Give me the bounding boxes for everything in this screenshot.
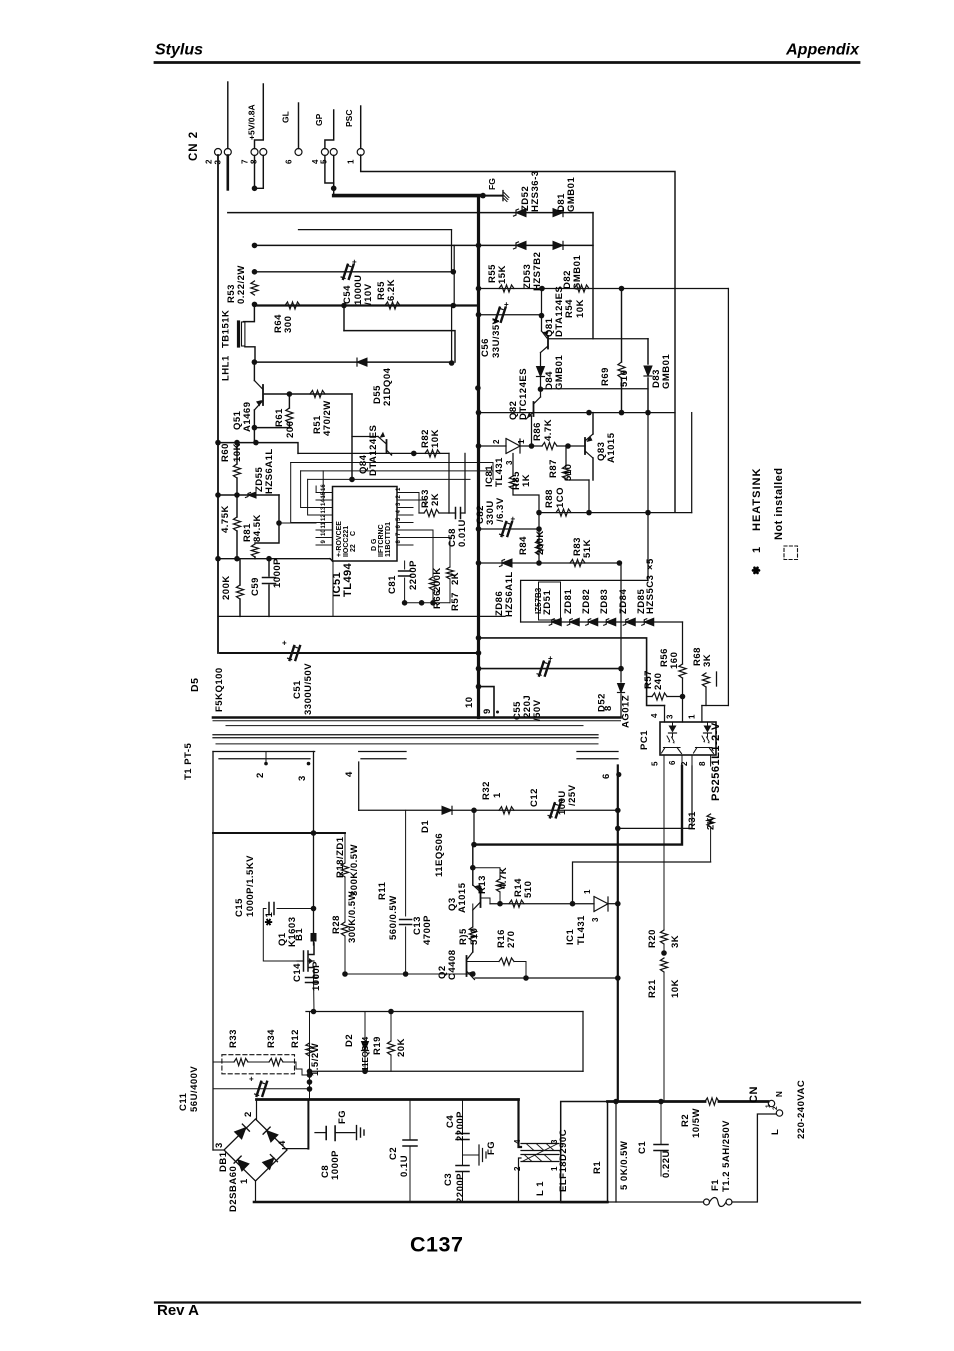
svg-text:5: 5 [651,761,660,766]
svg-text:2200P: 2200P [455,1173,466,1203]
wire zener chain frame [521,580,648,622]
svg-text:/10V: /10V [363,283,374,305]
wire FG stub [483,195,502,197]
svg-text:PS2561L1-2-V: PS2561L1-2-V [710,722,722,801]
svg-text:CN: CN [748,1086,760,1103]
wire h y974 [345,973,473,975]
wire bridge pin4 up [307,1100,309,1149]
svg-text:1: 1 [517,439,526,444]
zener ZD81 [567,618,579,626]
capacitor C15 [277,908,314,910]
svg-text:2200P: 2200P [455,1111,466,1141]
wire nest left of IC51 [255,442,257,444]
PC1 LED 1 [669,726,677,733]
wire C56 node up [541,289,543,315]
wire h9 [344,331,455,362]
svg-text:R87: R87 [548,459,559,478]
svg-text:✱1: ✱1 [264,912,275,926]
wire bridge bottom to bus [255,1181,257,1202]
svg-text:4.7K: 4.7K [498,867,509,889]
svg-text:510: 510 [523,881,534,898]
IC51 pin stubs right [397,492,413,494]
zener ZD83 [604,618,616,626]
svg-text:8: 8 [603,705,614,711]
svg-text:510: 510 [469,928,480,945]
svg-text:3: 3 [591,917,600,922]
resistor R65 [385,302,400,309]
PC1 pin 1 stub [701,706,703,723]
svg-text:R13: R13 [477,875,488,894]
svg-text:56U/400V: 56U/400V [189,1066,200,1112]
svg-text:R28: R28 [331,915,342,934]
svg-text:×5: ×5 [645,558,656,570]
transistor Q84 DTA124ES [386,440,388,453]
capacitor C13 [400,920,412,925]
capacitor C4 [462,1100,464,1134]
svg-text:D G: D G [371,538,378,551]
svg-text:HEATSINK: HEATSINK [751,468,763,531]
diode D2 [364,1012,366,1042]
svg-text:ELF18D290C: ELF18D290C [558,1129,569,1192]
wire h12 [254,427,291,429]
fuse F1 [704,1199,710,1205]
resistor R55 [499,285,514,292]
svg-text:3K: 3K [670,935,681,948]
svg-text:6: 6 [601,773,612,779]
svg-text:2K: 2K [450,572,461,585]
svg-text:ZD82: ZD82 [581,589,592,614]
wire IC81 ref pin3 [512,454,514,477]
svg-text:D1: D1 [420,820,431,833]
resistor R60 [236,443,238,464]
wire h27 [479,638,665,706]
wire h40 Q3 base row [490,903,594,905]
wire h R55 row [479,288,729,290]
svg-text:R57: R57 [450,592,461,611]
svg-text:6.2K: 6.2K [386,279,397,301]
svg-text:200K: 200K [221,575,232,600]
svg-text:T1 PT-5: T1 PT-5 [183,742,194,780]
connector CN2 pin 3 [224,149,231,156]
svg-text:1: 1 [583,889,592,894]
wire h17 ZD55 row [218,494,279,496]
svg-text:R1: R1 [592,1161,603,1174]
wire bottom bus thin [608,1201,704,1203]
resistor R63 [448,453,450,513]
svg-text:4: 4 [513,1139,522,1144]
svg-text:2: 2 [513,1166,522,1171]
resistor R87 [565,446,567,466]
capacitor C14 [306,978,318,983]
svg-text:R21: R21 [647,979,658,998]
resistor R64 [285,302,300,309]
svg-text:300K/0.5W: 300K/0.5W [347,891,358,943]
svg-text:HZS5C3: HZS5C3 [645,575,656,614]
svg-text:IC1: IC1 [565,929,576,946]
svg-text:3: 3 [666,714,675,719]
junction FG bus [480,193,486,199]
diode D52 [618,684,625,693]
wire R18 column [344,833,346,863]
svg-text:510: 510 [563,464,574,481]
resistor R81 [255,495,279,543]
wire D84 node row [541,388,649,390]
svg-text:10/5W: 10/5W [691,1108,702,1138]
resistor R69 [621,289,623,363]
resistor R66 [432,530,434,577]
wire h6 row with C54 [255,271,454,273]
svg-text:ZD84: ZD84 [618,589,629,614]
L1 box [561,1102,608,1203]
svg-text:TB151K: TB151K [221,310,232,348]
capacitor C82 [500,515,516,537]
connector CN2 pin 1 [357,149,364,156]
wire h28 C51 row [220,652,479,654]
wire thick top bus [257,1098,519,1101]
svg-text:Appendix: Appendix [785,42,860,59]
zener ZD82 [586,618,598,626]
svg-text:R86: R86 [532,422,543,441]
resistor R33/R34 dashed box [222,1055,295,1074]
svg-text:FG: FG [486,1141,497,1155]
wire T1 pin6 drop / main vertical [617,766,619,1102]
svg-text:C81: C81 [387,575,398,594]
wire h23 ZD86 row [479,562,620,564]
zener ZD86 [500,559,513,567]
capacitor C81 [404,561,406,569]
svg-text:R11: R11 [377,881,388,900]
capacitor C55 [537,654,553,676]
wire h13 [218,443,298,454]
wire h20 R88 row [539,512,692,514]
zener ZD52 [514,209,527,217]
capacitor C51 [282,639,300,661]
transformer pin 2 [264,762,268,766]
svg-text:GMB01: GMB01 [566,177,577,212]
svg-text:2: 2 [255,772,266,778]
svg-text:L 1: L 1 [535,1181,546,1196]
svg-text:C14: C14 [292,963,303,982]
svg-text:1: 1 [688,714,697,719]
transistor Q81 DTA124ES [541,316,543,331]
svg-text:0.22/2W: 0.22/2W [236,265,247,304]
capacitor C59 [268,559,270,576]
IC U51 TL494 box [333,487,398,562]
svg-text:HZS36-3: HZS36-3 [530,170,541,212]
svg-text:C3: C3 [443,1173,454,1186]
wire h10 row D55 [254,361,451,363]
wire FG bus thick [334,194,483,198]
resistor R57 2K [449,538,451,568]
wire pin7/8 join [255,156,264,189]
PC1 phototransistor 1 [662,748,682,754]
svg-text:D2SBA60: D2SBA60 [228,1166,239,1212]
svg-text:1000P: 1000P [330,1150,341,1180]
svg-text:+-ROVCEE: +-ROVCEE [336,521,343,557]
svg-text:2: 2 [205,159,214,164]
capacitor C56 [493,300,509,322]
zener box ZD51 [539,582,561,620]
svg-text:/25V: /25V [567,784,578,806]
resistor R34 [248,1061,269,1063]
svg-text:300: 300 [283,316,294,333]
svg-text:1.5/2W: 1.5/2W [310,1043,321,1076]
svg-text:300K/0.5W: 300K/0.5W [349,844,360,896]
diode D1 [442,806,452,814]
wire R20 column from PC1 pin5 [663,766,665,930]
wire R12 column [309,1012,311,1100]
resistor R84 [535,540,542,555]
svg-text:ZD51: ZD51 [542,590,553,615]
svg-text:2200P: 2200P [408,560,419,590]
svg-text:16: 16 [321,484,327,491]
wire Q81 base row [548,338,648,340]
resistor R53 [251,281,258,295]
resistor R32 [499,807,514,814]
resistor R68 [702,705,729,707]
connector CN2 pin 6 [295,149,302,156]
wire x648 v [647,413,649,513]
svg-text:GMB01: GMB01 [661,354,672,389]
wire h35 D1 row [359,809,618,811]
wire h row 558 [218,558,330,560]
svg-text:F1: F1 [710,1179,721,1191]
svg-text:R88: R88 [544,489,555,508]
svg-text:51K: 51K [582,539,593,558]
svg-text:11EQS06: 11EQS06 [434,833,445,877]
IC51 pin stubs left [316,492,333,494]
transistor Q1 K1603 MOSFET [313,933,315,945]
svg-text:240: 240 [653,673,664,690]
svg-text:Not installed: Not installed [773,467,785,540]
svg-text:TL431: TL431 [494,457,505,487]
ground FG at C8 [357,1126,365,1140]
resistor R58 200K [236,585,243,599]
wire D1 node drop [473,810,475,844]
svg-text:+: + [352,257,357,266]
svg-text:10: 10 [321,529,327,536]
wire h44 [306,1011,583,1013]
connector CN pins [768,1100,774,1106]
capacitor C11 [249,1074,267,1096]
svg-text:9: 9 [321,540,327,544]
wire zener chain to R56 [682,622,684,664]
svg-text:1CO: 1CO [555,487,566,508]
svg-text:6: 6 [668,760,677,765]
svg-text:3: 3 [214,1142,225,1148]
svg-text:R20: R20 [647,929,658,948]
wire PSC net [361,155,675,512]
wire pin1 to PSC line [360,106,362,149]
svg-text:R61: R61 [274,408,285,427]
resistor R1 line [615,1102,617,1203]
wire pin4/5 top bracket [325,110,334,149]
svg-text:510: 510 [619,370,630,387]
svg-text:2: 2 [492,439,501,444]
svg-text:2: 2 [772,1106,779,1110]
PC1 phototransistor 2 [694,748,714,754]
transistor Q2 C4408 [472,941,474,952]
wire h5 row [255,244,594,246]
svg-text:IIOCC221: IIOCC221 [343,526,350,557]
capacitor C3 [456,1166,469,1172]
wire h21 C82 row [479,528,540,530]
PC1 pin 3 stub [682,697,684,723]
wire bottom bus thick [254,1201,608,1204]
wire main rail thick vertical [477,196,480,718]
resistor R15 [472,904,474,927]
svg-text:C11: C11 [178,1092,189,1111]
svg-text:TL494: TL494 [342,562,354,597]
wire h30 pin9 [479,687,495,718]
wire PC1 pin5 to R20 column [663,755,665,766]
svg-text:✽: ✽ [751,565,763,575]
svg-text:C1: C1 [637,1141,648,1154]
svg-text:20K: 20K [396,1038,407,1057]
resistor R19 [390,1012,392,1042]
svg-text:C12: C12 [529,788,540,807]
junction pin4/5 [331,186,337,192]
svg-text:PC1: PC1 [639,730,650,750]
svg-text:HZS6A1L: HZS6A1L [504,571,515,617]
svg-text:+: + [249,1074,254,1083]
svg-text:+5V/0.8A: +5V/0.8A [247,104,257,140]
svg-text:HZS6A1L: HZS6A1L [264,448,275,494]
wire h29 C55 row [479,668,622,670]
svg-text:R32: R32 [481,781,492,800]
ground FG at C3/C4 [463,1154,480,1156]
wire h46 C11 row [213,1088,310,1090]
svg-text:F5KQ100: F5KQ100 [214,667,225,712]
choke L1 [519,1100,522,1148]
svg-text:Rev A: Rev A [157,1302,199,1319]
header rule [155,61,859,64]
svg-text:2K: 2K [430,493,441,506]
svg-text:B1: B1 [294,928,305,941]
svg-text:10: 10 [464,696,475,708]
wire pin3 stub [227,156,230,190]
svg-text:R33: R33 [228,1029,239,1048]
resistor R56 [679,664,686,678]
svg-text:D5: D5 [189,678,201,692]
diode D55 [357,358,367,366]
resistor R51 [310,390,325,397]
svg-text:15: 15 [321,491,327,498]
svg-text:C54: C54 [342,285,353,304]
wire bus to CN [608,1100,706,1103]
svg-text:3K: 3K [702,654,713,667]
wire T1 pin2/box1 left [212,752,214,1151]
svg-text:8: 8 [698,761,707,766]
svg-text:C51: C51 [292,680,303,699]
svg-text:4700P: 4700P [422,915,433,945]
connector CN2 pin 4 [321,149,328,156]
junction pin7/8 [252,186,258,192]
svg-text:LHL1: LHL1 [221,355,232,381]
transistor Q3 A1015 [472,845,474,885]
transistor Q83 A1015 [584,438,586,454]
wire verticals x451-454 [451,230,453,272]
resistor R14 [509,900,524,907]
wire Q3 base [481,898,491,904]
zener ZD53 [514,241,527,249]
wire h38 feedback [573,862,711,904]
resistor R13 [473,868,500,879]
svg-text:L: L [770,1129,781,1135]
svg-text:4.7K: 4.7K [543,419,554,441]
svg-text:7: 7 [241,159,250,164]
svg-text:AG01Z: AG01Z [621,695,632,728]
svg-text:15K: 15K [497,265,508,284]
svg-text:R2: R2 [680,1114,691,1127]
wire Q51 base row h11 [264,393,352,395]
resistor R12 [306,1043,313,1056]
svg-text:DTA124ES: DTA124ES [554,286,565,337]
svg-text:6: 6 [285,159,294,164]
resistor R28 [341,922,348,936]
svg-text:A1015: A1015 [606,432,617,463]
connector CN2 pin 7 [251,149,258,156]
svg-text:R19: R19 [372,1036,383,1055]
svg-text:R18/ZD1: R18/ZD1 [335,836,346,878]
wire IC81 anode to R86 [520,445,542,447]
bridge DB1 [256,1100,258,1120]
wire h45 [310,1070,584,1072]
wire T1 pin3 drop [313,752,315,934]
resistor R20 [660,930,667,944]
svg-text:1000P/1.5KV: 1000P/1.5KV [245,855,256,917]
wire pin3 up [227,82,229,149]
wire v down from h3 [592,213,594,339]
resistor R83 [570,559,585,566]
svg-text:C59: C59 [250,577,261,596]
wire h26 zener row [521,621,683,623]
svg-text:FG: FG [337,1110,348,1124]
svg-text:+: + [511,515,516,524]
transistor Q51 [262,385,264,405]
ground FG chassis [503,191,509,202]
svg-text:R69: R69 [600,367,611,386]
svg-text:C137: C137 [410,1233,463,1257]
wire h from R81 node to pins [279,522,316,524]
wire v x344 h6-h9 [343,306,345,331]
wire pin7/8 top bracket [255,84,264,149]
resistor R85 [509,476,516,489]
wire h C81 bottom [405,602,450,604]
svg-text:10K: 10K [232,443,243,462]
wire x728 drop [727,289,729,706]
wire PC1 pin8 down [710,755,712,766]
resistor R88 [556,509,571,516]
svg-text:84.5K: 84.5K [252,514,263,542]
PC1 pin 4 stub [664,706,666,723]
transformer TB151K [244,304,255,321]
svg-text:IIFTCRNC: IIFTCRNC [378,524,385,557]
svg-text:220-240VAC: 220-240VAC [796,1080,807,1139]
capacitor C54 [341,257,357,279]
wire h16 row [479,412,676,414]
diode D81 [553,209,563,217]
svg-text:1: 1 [347,159,356,164]
svg-text:1: 1 [751,546,763,553]
svg-text:560/0.5W: 560/0.5W [388,895,399,940]
wire h y833 [213,832,345,834]
PC1 LED 2 [704,726,712,733]
svg-text:1: 1 [765,1104,772,1108]
resistor R18/ZD1 [341,863,348,877]
svg-text:10K: 10K [575,299,586,318]
capacitor C8 [315,1132,326,1134]
